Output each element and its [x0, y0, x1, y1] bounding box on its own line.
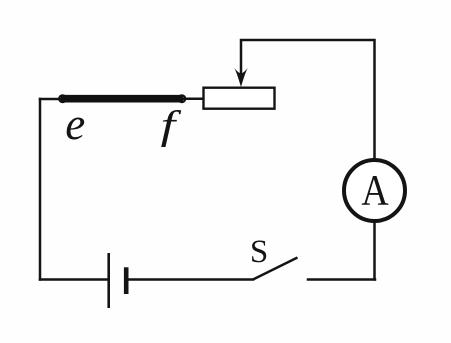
- svg-text:S: S: [250, 234, 268, 270]
- svg-text:f: f: [161, 103, 182, 147]
- svg-text:A: A: [361, 166, 388, 214]
- svg-text:e: e: [65, 99, 85, 149]
